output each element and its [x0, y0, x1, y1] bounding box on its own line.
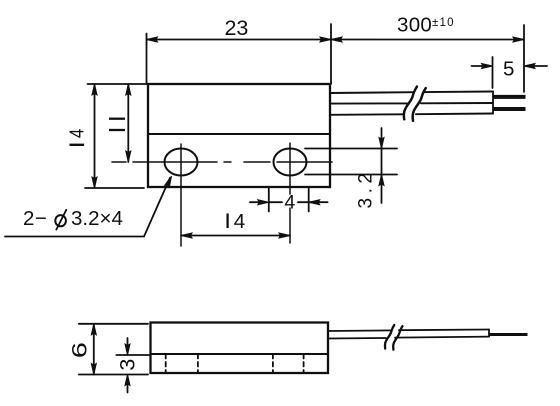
bottom view wire end cap [488, 330, 490, 337]
bottom extension line for dim 6 [79, 374, 148, 376]
cable break curve 2 [413, 88, 426, 121]
hole right vertical center line [289, 143, 291, 243]
extension line for dim 3 [116, 354, 150, 356]
bottom view wire break curve 2 [393, 326, 402, 350]
hidden slot dashed line 3 [272, 354, 274, 373]
dimension 11 vertical line [127, 84, 129, 162]
hole right [274, 149, 307, 176]
svg-text:3: 3 [115, 359, 139, 371]
svg-text:3.2×4: 3.2×4 [71, 207, 123, 230]
svg-text:4: 4 [234, 210, 245, 233]
hole left vertical center line [180, 144, 182, 246]
extension line left of dim 23 [146, 34, 148, 85]
dimension 3.2 vertical line with outside arrows [381, 128, 383, 203]
bottom view divider line [151, 353, 329, 355]
svg-text:23: 23 [224, 16, 248, 40]
svg-text:5: 5 [503, 58, 514, 81]
svg-text:4: 4 [284, 192, 295, 214]
top extension line for dim 6 [79, 323, 148, 325]
bottom view bare conductor [489, 333, 528, 336]
bottom extension line for vertical dim 14 [85, 187, 144, 189]
bottom view wire break curve 1 [385, 325, 394, 349]
bottom view wire bottom line [328, 337, 489, 339]
hole note phi symbol slash [56, 210, 66, 230]
extension line bottom for dim 3.2 [305, 174, 397, 176]
extension line top for dim 3.2 [305, 148, 397, 150]
hidden slot dashed line 4 [303, 354, 305, 373]
shared extension line between 23 and 300 [330, 24, 332, 84]
hidden slot dashed line 1 [165, 354, 167, 373]
svg-text:4: 4 [65, 129, 88, 138]
extension tick left for dim 4 [268, 189, 270, 212]
upper wire insulation end cap [492, 92, 494, 103]
hidden slot dashed line 2 [197, 354, 199, 373]
extension line at insulation end for dim 5 [492, 57, 494, 88]
hole left [165, 149, 198, 176]
top extension line for vertical dims 14 and 11 [88, 83, 149, 85]
dimension 4 line with outside arrows [250, 201, 328, 203]
lower wire insulation end cap [492, 104, 494, 114]
cable bottom line [330, 114, 493, 115]
top view body outline [148, 84, 330, 187]
leader arrowhead [165, 175, 174, 187]
upper bare conductor [493, 95, 526, 99]
cable middle line [330, 102, 493, 105]
dim text 14 vertical: digit 1 bar [70, 144, 85, 146]
dimension 3 bottom arrow [127, 379, 129, 393]
hole note phi symbol circle [55, 215, 66, 226]
bottom view body outline [151, 323, 329, 374]
svg-text:6: 6 [68, 342, 92, 358]
dimension 3 top arrow [127, 338, 129, 351]
dim text 11 vertical: digit 1 bar b [109, 129, 125, 131]
dimension 14 horizontal line (hole spacing) [181, 235, 290, 237]
svg-text:3.2: 3.2 [356, 169, 377, 209]
svg-text:2−: 2− [23, 207, 47, 230]
top view body divider line [148, 133, 330, 135]
dimension 5 right arrow [529, 65, 547, 67]
dimension 23 line [147, 39, 332, 41]
svg-text:±10: ±10 [432, 17, 455, 29]
dimension 5 left arrow [472, 65, 489, 67]
dim text 14 hole spacing: digit 1 bar [226, 214, 228, 229]
right extension line of 300 and 5 [523, 25, 525, 92]
dimension 300 line [331, 39, 524, 41]
lower bare conductor [493, 107, 526, 111]
dim text 11 vertical: digit 1 bar a [109, 118, 125, 120]
dimension 6 vertical line [93, 324, 95, 375]
dimension 14 vertical line [94, 84, 96, 188]
cable break curve 1 [404, 87, 417, 120]
horizontal center line through holes [112, 161, 332, 163]
bottom view wire top line [328, 330, 489, 332]
cable top line [330, 92, 493, 94]
svg-text:300: 300 [397, 14, 432, 37]
leader line for hole note [5, 178, 170, 237]
extension tick right for dim 4 [308, 189, 310, 212]
